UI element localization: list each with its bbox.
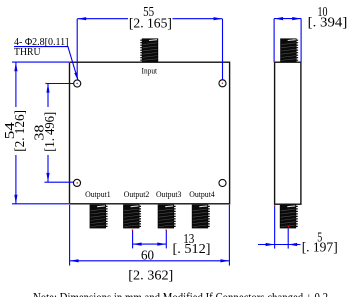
- hole top-right: [219, 80, 226, 87]
- svg-text:[1. 496]: [1. 496]: [43, 112, 58, 152]
- side view body outline: [275, 62, 301, 204]
- svg-text:Output3: Output3: [156, 190, 182, 199]
- svg-text:Note: Dimensions in mm and Mod: Note: Dimensions in mm and Modified If C…: [33, 289, 328, 297]
- dimension 13 lines: [133, 230, 167, 248]
- dimension 54 lines: [12, 62, 69, 204]
- output connector 1: [90, 205, 107, 229]
- hole bottom-right: [219, 179, 226, 186]
- svg-text:Output1: Output1: [85, 190, 111, 199]
- svg-text:THRU: THRU: [14, 47, 41, 58]
- hole top-left: [74, 80, 81, 87]
- svg-text:[. 197]: [. 197]: [302, 240, 338, 255]
- svg-text:Output4: Output4: [189, 190, 215, 199]
- svg-text:[. 512]: [. 512]: [173, 242, 211, 257]
- input connector: [141, 38, 158, 62]
- svg-text:[2. 362]: [2. 362]: [128, 268, 173, 283]
- main body outline: [70, 62, 230, 204]
- dimension 60 lines: [70, 205, 230, 266]
- hole bottom-left: [73, 179, 80, 186]
- svg-text:[2. 126]: [2. 126]: [13, 110, 28, 152]
- dimension 5 arrowheads: [266, 243, 275, 246]
- hole callout leader: [14, 47, 78, 80]
- dimension 13 arrowheads: [133, 243, 142, 246]
- dimension 38 lines: [45, 84, 74, 183]
- svg-text:Output2: Output2: [124, 190, 150, 199]
- side connector top: [280, 38, 297, 62]
- side connector bottom: [280, 205, 297, 229]
- dimension 54 arrowheads: [14, 62, 17, 71]
- svg-text:[2. 165]: [2. 165]: [129, 16, 172, 31]
- dimension 10 arrowheads: [274, 17, 283, 20]
- output connector 4: [192, 205, 209, 229]
- dimension 55 lines: [77, 19, 222, 80]
- output connector 2: [123, 205, 140, 229]
- svg-text:Input: Input: [142, 66, 158, 75]
- svg-text:60: 60: [141, 249, 154, 264]
- dimension 55 arrowheads: [77, 17, 86, 20]
- dimension 60 arrowheads: [70, 259, 79, 262]
- dimension 10 lines: [274, 19, 301, 62]
- defpoint dots: [45, 61, 289, 231]
- svg-text:[. 394]: [. 394]: [308, 15, 348, 30]
- output connector 3: [158, 205, 175, 229]
- dimension 38 arrowheads: [46, 84, 49, 93]
- dimension 5 lines: [258, 206, 301, 249]
